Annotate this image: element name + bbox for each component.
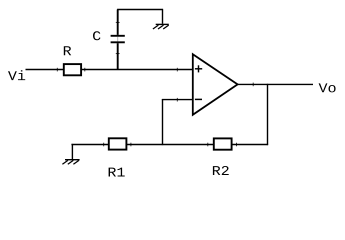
node Vo bbox=[319, 83, 336, 92]
resistor R2 bbox=[208, 138, 237, 175]
wire R2 to feedback vertical bbox=[232, 144, 269, 146]
wire inverting node vertical bbox=[162, 99, 164, 145]
wire cap top to ground drop bbox=[117, 9, 163, 11]
wire ground to R1 bbox=[71, 144, 108, 146]
ground (top right) bbox=[153, 24, 169, 29]
wire feedback vertical from output bbox=[267, 84, 269, 145]
node Vi bbox=[8, 70, 25, 80]
wire R to op-amp noninverting input bbox=[81, 69, 193, 71]
ground (bottom left) bbox=[62, 160, 79, 165]
wire vertical drop to bottom ground bbox=[71, 144, 73, 160]
resistor R bbox=[57, 46, 85, 75]
resistor R1 bbox=[104, 138, 131, 176]
wire junction tick at op-amp + pin bbox=[176, 68, 178, 72]
wire op-amp inverting input bbox=[162, 98, 193, 102]
capacitor C bbox=[93, 10, 125, 70]
wire Vi to R bbox=[26, 69, 64, 71]
wire vertical drop to top ground bbox=[162, 10, 164, 24]
wire R1 to R2 bbox=[126, 144, 213, 146]
wire op-amp output bbox=[238, 83, 313, 87]
op-amp U1 bbox=[193, 54, 238, 115]
